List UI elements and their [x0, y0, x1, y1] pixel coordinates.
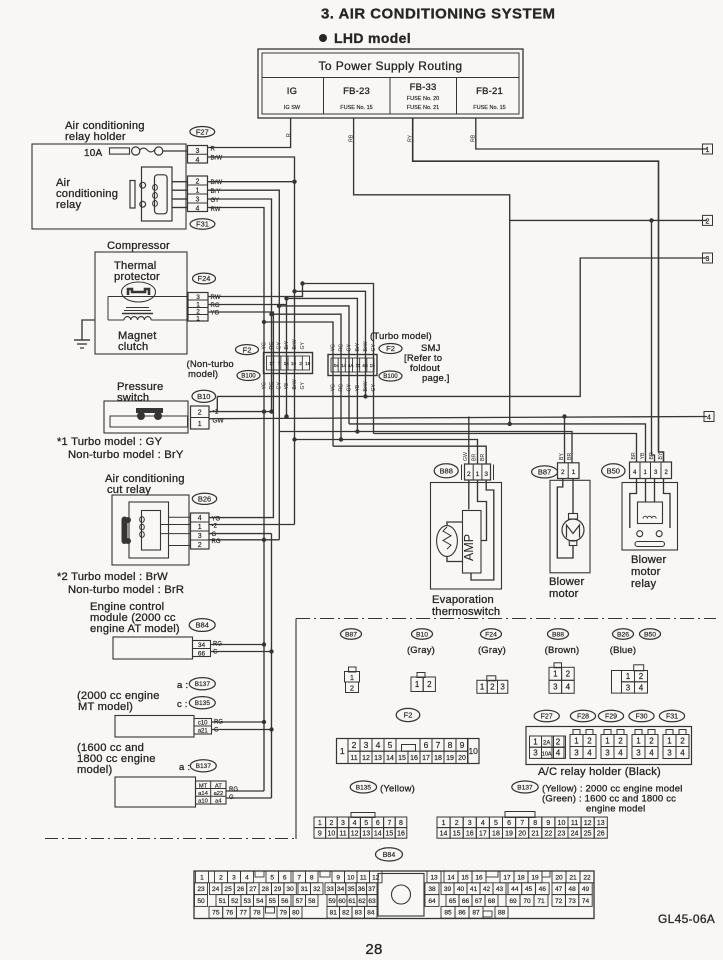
svg-text:20: 20 [458, 755, 466, 762]
svg-text:B50: B50 [607, 467, 620, 476]
svg-text:G: G [212, 532, 217, 538]
A/C relay holder legend box [526, 727, 692, 765]
svg-text:17: 17 [479, 830, 487, 837]
svg-text:6: 6 [507, 820, 511, 827]
svg-text:10: 10 [347, 874, 355, 881]
svg-text:GY: GY [300, 381, 306, 389]
svg-text:YB: YB [640, 452, 646, 459]
svg-text:25: 25 [584, 830, 592, 837]
svg-text:4: 4 [639, 683, 644, 692]
svg-text:2: 2 [352, 740, 357, 750]
svg-text:MT model): MT model) [78, 701, 133, 713]
svg-text:2: 2 [649, 736, 654, 745]
svg-text:2: 2 [350, 684, 354, 693]
svg-text:F28: F28 [577, 714, 589, 721]
svg-text:32: 32 [313, 886, 321, 893]
svg-text:48: 48 [568, 886, 576, 893]
svg-text:50: 50 [197, 898, 205, 905]
wire fan to turbo 5 [272, 314, 342, 439]
svg-text:12: 12 [362, 755, 370, 762]
svg-text:4: 4 [618, 748, 623, 757]
svg-text:2: 2 [561, 469, 565, 476]
svg-text:58: 58 [308, 898, 316, 905]
svg-text:BrW: BrW [211, 180, 223, 186]
svg-text:1: 1 [706, 147, 710, 154]
svg-text:42: 42 [483, 886, 491, 893]
svg-text:3: 3 [636, 748, 641, 757]
svg-text:*1 Turbo model : GY: *1 Turbo model : GY [57, 436, 162, 448]
svg-text:67: 67 [475, 898, 483, 905]
svg-text:GY: GY [300, 341, 306, 349]
svg-text:7: 7 [436, 740, 441, 750]
svg-text:12: 12 [584, 820, 592, 827]
svg-text:B84: B84 [196, 621, 209, 630]
relay contact bar [130, 181, 135, 209]
svg-text:3: 3 [626, 683, 631, 692]
svg-text:12: 12 [372, 874, 380, 881]
svg-text:51: 51 [219, 898, 227, 905]
svg-text:model): model) [77, 764, 112, 776]
wire GW B10 to tag4 [209, 417, 707, 419]
svg-text:3: 3 [484, 471, 488, 478]
svg-text:88: 88 [498, 910, 506, 917]
svg-text:20: 20 [555, 874, 563, 881]
wire RB branch to tag2 [510, 219, 707, 221]
svg-text:B88: B88 [440, 467, 453, 476]
svg-text:4: 4 [649, 748, 654, 757]
connector B50 pins [630, 462, 672, 479]
B84 row2 cells [195, 883, 208, 895]
svg-text:G: G [214, 728, 219, 734]
svg-text:8: 8 [533, 820, 537, 827]
svg-text:63: 63 [368, 898, 376, 905]
svg-text:46: 46 [539, 886, 547, 893]
svg-text:F31: F31 [666, 714, 678, 721]
svg-text:2: 2 [196, 309, 200, 316]
svg-text:B135: B135 [195, 700, 211, 707]
svg-text:IG SW: IG SW [284, 105, 301, 111]
svg-text:83: 83 [355, 910, 363, 917]
svg-text:(Brown): (Brown) [545, 645, 580, 656]
tag 4 boxed [704, 412, 714, 422]
svg-text:19: 19 [446, 755, 454, 762]
wire turbo to B50 via RB junction [349, 424, 646, 462]
wire G from B26 [209, 533, 272, 535]
svg-text:Non-turbo model : BrR: Non-turbo model : BrR [68, 584, 184, 596]
svg-text:FB-21: FB-21 [476, 86, 503, 97]
ground wire [82, 320, 95, 340]
svg-text:relay: relay [56, 199, 81, 211]
svg-text:3: 3 [198, 533, 202, 540]
svg-text:10: 10 [468, 746, 478, 756]
wire BrW relay pin2 [208, 181, 295, 183]
svg-text:12: 12 [351, 830, 359, 837]
svg-text:4: 4 [198, 515, 202, 522]
compressor box [95, 252, 187, 354]
svg-text:F31: F31 [196, 220, 209, 229]
SMJ connector non-turbo model [264, 353, 313, 374]
svg-text:B26: B26 [198, 495, 211, 504]
connector B100 oval non-turbo [237, 371, 260, 381]
svg-text:4: 4 [196, 205, 200, 212]
legend separator dash-dot [296, 618, 716, 620]
svg-text:2A: 2A [543, 741, 550, 747]
svg-text:Y8: Y8 [355, 385, 361, 391]
blower motor symbol [562, 519, 584, 541]
svg-text:1: 1 [196, 187, 200, 194]
svg-text:(Turbo model): (Turbo model) [370, 331, 432, 342]
legend oval F30 [629, 710, 654, 722]
svg-text:39: 39 [444, 886, 452, 893]
svg-text:A/C relay holder (Black): A/C relay holder (Black) [538, 766, 661, 778]
svg-text:(Blue): (Blue) [610, 645, 637, 656]
svg-text:28: 28 [262, 886, 270, 893]
motor brush blocks [569, 514, 578, 520]
svg-text:82: 82 [342, 910, 350, 917]
svg-text:BrW: BrW [292, 379, 298, 389]
legend connector B84 [194, 871, 594, 919]
svg-text:Blower: Blower [549, 576, 584, 588]
svg-text:3: 3 [364, 740, 369, 750]
ECM 1600 box [115, 777, 196, 807]
wire B50 to tag2 line [652, 220, 655, 462]
svg-text:6: 6 [376, 820, 380, 827]
connector F27 pins [188, 146, 208, 164]
connector B10 pins [191, 406, 210, 429]
svg-text:41: 41 [470, 886, 478, 893]
wire *1 riser to tag3 line [216, 396, 218, 411]
connector B100 oval turbo [379, 371, 402, 381]
svg-text:37: 37 [368, 886, 376, 893]
svg-text:model): model) [188, 369, 218, 380]
svg-text:F27: F27 [196, 127, 209, 136]
svg-text:protector: protector [114, 271, 160, 283]
svg-text:5: 5 [364, 820, 368, 827]
legend oval B87 [341, 629, 362, 639]
legend connector F28 [573, 730, 580, 735]
svg-text:page.]: page.] [422, 373, 450, 384]
svg-text:B88: B88 [552, 631, 564, 638]
svg-text:23: 23 [558, 830, 566, 837]
svg-text:1: 1 [442, 820, 446, 827]
wire RW from F24 [208, 284, 303, 297]
wire turbo to B87 BR [279, 432, 572, 463]
svg-text:AT: AT [215, 783, 222, 789]
svg-text:52: 52 [231, 898, 239, 905]
legend oval F29 [598, 710, 623, 722]
wire fan to turbo 4 [279, 306, 349, 424]
svg-text:relay holder: relay holder [65, 131, 126, 143]
node turbo junction on tag3 line [363, 394, 367, 398]
legend left border [295, 619, 297, 840]
ECM AT pins [193, 641, 211, 657]
wire ECM1 RG [211, 644, 265, 646]
svg-text:cut relay: cut relay [107, 484, 151, 496]
svg-text:4: 4 [566, 683, 571, 692]
wire RG from F24 [208, 304, 287, 306]
svg-text:B84: B84 [383, 852, 396, 859]
svg-text:5: 5 [388, 740, 393, 750]
svg-text:14: 14 [386, 755, 394, 762]
svg-text:61: 61 [348, 898, 356, 905]
connector F2 oval non-turbo [236, 345, 259, 355]
svg-text:BR: BR [472, 454, 478, 461]
wire G vertical to ECM [271, 534, 273, 798]
svg-text:YG: YG [262, 382, 268, 390]
svg-text:14: 14 [447, 874, 455, 881]
svg-text:11: 11 [571, 820, 578, 827]
evaporation thermoswitch box [431, 483, 502, 590]
svg-text:RG: RG [339, 344, 345, 352]
svg-text:16: 16 [410, 755, 418, 762]
legend oval B26 [613, 629, 634, 639]
connector F24 pins [188, 293, 208, 322]
ECM AT box [113, 637, 193, 659]
svg-text:5: 5 [494, 820, 498, 827]
svg-text:15: 15 [461, 874, 469, 881]
wire IG to F27 pin3 R [208, 118, 291, 148]
svg-text:F24: F24 [485, 631, 497, 638]
svg-text:14: 14 [284, 361, 290, 366]
svg-text:B135: B135 [356, 784, 372, 791]
wire B87 BY to tag4 [564, 417, 566, 463]
svg-text:15: 15 [370, 363, 376, 368]
svg-text:2: 2 [329, 820, 333, 827]
wire fan to turbo 2 [295, 291, 366, 396]
thermoswitch wires [468, 480, 470, 510]
svg-text:B100: B100 [383, 373, 398, 380]
svg-text:MT: MT [199, 783, 208, 789]
svg-text:2: 2 [455, 820, 459, 827]
svg-text:15: 15 [398, 755, 406, 762]
svg-text:GY: GY [347, 343, 353, 351]
svg-text:11: 11 [355, 363, 360, 368]
svg-text:F29: F29 [605, 714, 617, 721]
svg-text:11: 11 [360, 874, 367, 881]
svg-text:B137: B137 [196, 763, 212, 770]
svg-text:1: 1 [480, 683, 485, 692]
svg-text:4: 4 [376, 740, 381, 750]
svg-text:FUSE No. 21: FUSE No. 21 [407, 105, 439, 111]
legend connector F29 [604, 730, 611, 735]
svg-text:56: 56 [281, 898, 289, 905]
svg-text:F27: F27 [541, 714, 553, 721]
wire RW relay pin4 [208, 208, 264, 792]
svg-text:66: 66 [462, 898, 470, 905]
svg-text:40: 40 [457, 886, 465, 893]
svg-text:B26: B26 [617, 631, 629, 638]
svg-text:44: 44 [511, 886, 519, 893]
svg-text:57: 57 [296, 898, 304, 905]
svg-text:YG: YG [331, 384, 337, 392]
svg-text:38: 38 [428, 886, 436, 893]
svg-text:71: 71 [537, 898, 545, 905]
svg-text:GL45-06A: GL45-06A [658, 912, 715, 926]
svg-text:2: 2 [587, 736, 592, 745]
relay contacts [637, 531, 643, 537]
svg-text:77: 77 [240, 910, 248, 917]
svg-text:GY: GY [277, 381, 283, 389]
svg-text:13: 13 [362, 830, 370, 837]
svg-text:FUSE No. 20: FUSE No. 20 [407, 96, 439, 102]
svg-text:81: 81 [330, 910, 338, 917]
wire fan to turbo 3 [287, 298, 358, 431]
connector B87 oval [532, 466, 558, 478]
air conditioning relay holder box [32, 144, 186, 229]
svg-text:BrY: BrY [284, 340, 290, 349]
svg-text:1: 1 [574, 736, 579, 745]
svg-text:7: 7 [520, 820, 524, 827]
relay wires [630, 479, 637, 529]
svg-text:2: 2 [556, 738, 561, 747]
wire BrW to B88 mid pin [295, 440, 478, 465]
svg-text:26: 26 [597, 830, 605, 837]
svg-text:23: 23 [197, 886, 205, 893]
wire BrY relay pin1 [208, 190, 279, 540]
svg-text:a4: a4 [215, 799, 222, 805]
wire ECM1 G [211, 651, 272, 653]
svg-text:1: 1 [200, 874, 204, 881]
svg-text:3: 3 [553, 683, 558, 692]
svg-text:3: 3 [667, 748, 672, 757]
svg-text:BrW: BrW [292, 339, 298, 349]
svg-text:a14: a14 [198, 791, 208, 797]
svg-text:GW: GW [463, 452, 469, 461]
wire relay to pins [172, 181, 188, 183]
legend oval B10 [412, 629, 433, 639]
wire *1 from B10 [209, 411, 272, 413]
svg-text:4A: 4A [348, 363, 355, 368]
B84 row4 cells [209, 906, 223, 918]
svg-text:2: 2 [566, 670, 571, 679]
SMJ connector turbo model [328, 355, 377, 376]
svg-text:GY: GY [347, 383, 353, 391]
wire GY relay pin3 [208, 199, 272, 412]
svg-text:20: 20 [518, 830, 526, 837]
svg-text:FB-33: FB-33 [410, 82, 437, 93]
svg-text:thermoswitch: thermoswitch [432, 606, 500, 618]
svg-text:4: 4 [680, 748, 685, 757]
svg-text:3: 3 [196, 148, 200, 155]
svg-text:55: 55 [269, 898, 277, 905]
wire ECM3 G [226, 797, 272, 799]
svg-text:13: 13 [597, 820, 605, 827]
svg-text:4: 4 [481, 820, 485, 827]
svg-text:1: 1 [667, 736, 672, 745]
svg-text:22: 22 [544, 830, 552, 837]
svg-text:13: 13 [430, 874, 438, 881]
svg-text:26: 26 [237, 886, 245, 893]
svg-text:Evaporation: Evaporation [432, 594, 494, 606]
B84 row3 cells [195, 895, 208, 907]
svg-text:BrY: BrY [355, 342, 361, 351]
svg-text:1: 1 [605, 736, 610, 745]
legend oval F24 [481, 629, 502, 639]
wire YG from F24 to B26 [208, 312, 273, 518]
svg-text:RG: RG [269, 382, 275, 390]
svg-text:4: 4 [196, 157, 200, 164]
svg-text:25: 25 [224, 886, 232, 893]
svg-text:3. AIR CONDITIONING SYSTEM: 3. AIR CONDITIONING SYSTEM [321, 6, 556, 23]
svg-text:1: 1 [340, 746, 345, 756]
svg-text:70: 70 [523, 898, 531, 905]
air conditioning cut relay box [112, 495, 189, 565]
svg-text:1: 1 [318, 820, 322, 827]
svg-text:60: 60 [338, 898, 346, 905]
svg-text:F2: F2 [386, 344, 395, 353]
svg-text:c10: c10 [198, 721, 208, 727]
svg-text:11: 11 [350, 755, 357, 762]
svg-text:a21: a21 [198, 729, 209, 735]
svg-text:27: 27 [249, 886, 257, 893]
svg-text:4: 4 [556, 749, 561, 758]
svg-text:7: 7 [278, 361, 281, 366]
svg-text:a :: a : [179, 762, 190, 773]
svg-text:BrW: BrW [363, 341, 369, 351]
svg-text:35: 35 [347, 886, 355, 893]
cut relay pin stubs [169, 516, 191, 518]
svg-text:FUSE No. 15: FUSE No. 15 [473, 105, 505, 111]
svg-text:53: 53 [244, 898, 252, 905]
svg-text:17: 17 [269, 361, 275, 366]
svg-text:4: 4 [353, 820, 357, 827]
svg-text:8: 8 [310, 874, 314, 881]
tag 1 boxed [703, 144, 713, 154]
svg-text:13: 13 [374, 755, 382, 762]
svg-text:a22: a22 [214, 791, 224, 797]
svg-text:4B: 4B [362, 363, 368, 368]
svg-text:3: 3 [196, 294, 200, 301]
svg-text:R: R [211, 147, 216, 153]
svg-text:74: 74 [582, 898, 590, 905]
svg-text:YG: YG [212, 517, 221, 523]
legend oval F2 [396, 708, 420, 721]
svg-text:17: 17 [422, 755, 430, 762]
svg-text:BR: BR [649, 452, 655, 459]
svg-text:10: 10 [291, 361, 297, 366]
wire FB-21 RB to tag1 [476, 118, 707, 149]
svg-text:B87: B87 [538, 468, 551, 477]
svg-text:2: 2 [219, 874, 223, 881]
svg-text:BY: BY [658, 452, 664, 459]
svg-text:(Gray): (Gray) [478, 645, 506, 656]
svg-text:Blower: Blower [631, 554, 666, 566]
svg-text:1: 1 [198, 421, 202, 428]
svg-text:47: 47 [555, 886, 563, 893]
svg-text:15: 15 [453, 830, 461, 837]
svg-text:4: 4 [245, 874, 249, 881]
svg-text:F24: F24 [198, 274, 211, 283]
svg-text:80: 80 [292, 910, 300, 917]
svg-text:24: 24 [212, 886, 220, 893]
svg-text:16: 16 [466, 830, 474, 837]
svg-text:a :: a : [177, 680, 188, 691]
svg-text:3: 3 [605, 748, 610, 757]
svg-text:2: 2 [196, 178, 200, 185]
svg-text:49: 49 [582, 886, 590, 893]
B84 row1 cells [196, 871, 209, 883]
power supply routing box [258, 49, 523, 118]
svg-text:86: 86 [458, 910, 466, 917]
B84 right cells [427, 871, 441, 883]
connector F2 oval turbo [379, 344, 402, 354]
svg-text:B137: B137 [195, 681, 211, 688]
svg-text:GY: GY [277, 341, 283, 349]
connector F27 oval [190, 127, 215, 137]
svg-text:engine model: engine model [586, 804, 645, 815]
svg-text:(Gray): (Gray) [407, 645, 435, 656]
connector B88 oval [434, 464, 458, 478]
